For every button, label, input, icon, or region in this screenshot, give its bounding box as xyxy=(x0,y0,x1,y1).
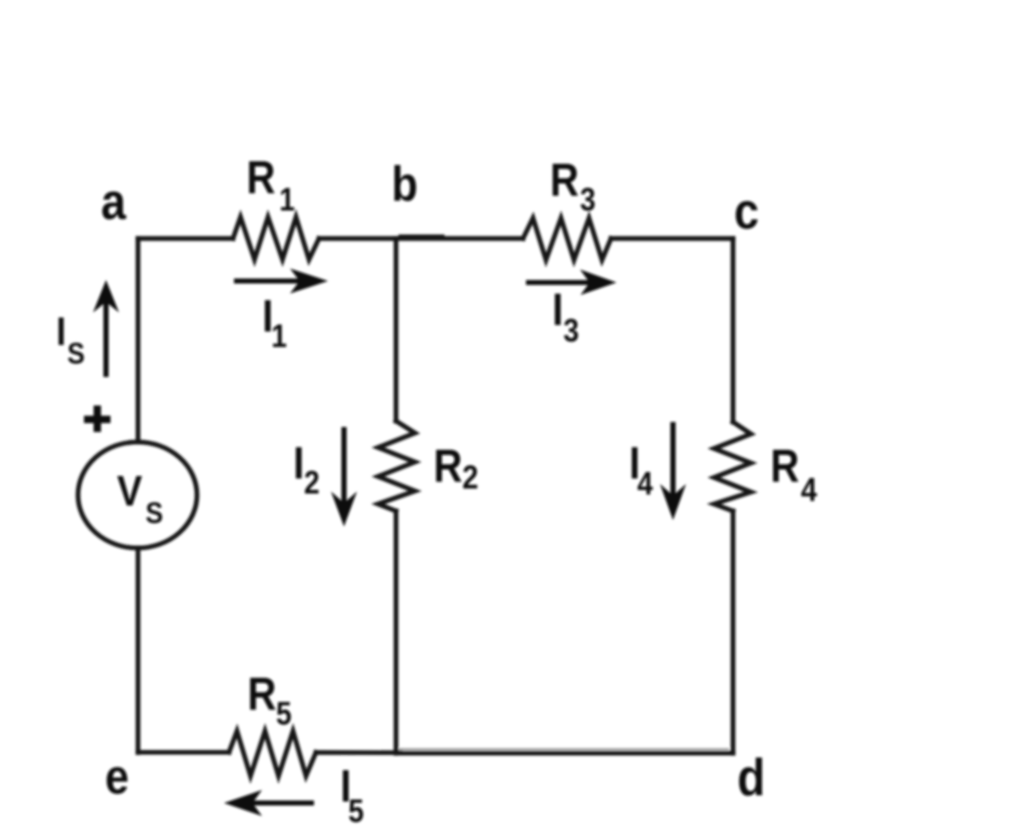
svg-text:R: R xyxy=(434,441,463,492)
svg-text:V: V xyxy=(117,466,142,515)
svg-text:3: 3 xyxy=(563,314,579,349)
svg-text:4: 4 xyxy=(637,467,653,502)
svg-text:I: I xyxy=(552,285,563,335)
current arrow I4 (down) xyxy=(670,422,675,504)
wire e to R5 xyxy=(138,750,229,755)
svg-text:1: 1 xyxy=(271,319,287,354)
current arrow I3 (right) xyxy=(526,280,600,285)
plus sign of source xyxy=(94,406,101,433)
svg-text:S: S xyxy=(146,495,164,529)
svg-text:I: I xyxy=(293,438,304,488)
svg-text:R: R xyxy=(770,441,799,492)
current arrow I5 (left) xyxy=(243,801,314,806)
resistor R5 xyxy=(229,731,316,776)
wire bottom right segment xyxy=(398,751,733,756)
svg-text:d: d xyxy=(737,749,765,806)
svg-text:S: S xyxy=(67,336,85,370)
wire node b to R3 xyxy=(396,236,523,241)
current arrow IS (up) xyxy=(103,291,108,377)
wire R1 to node b xyxy=(319,236,396,241)
resistor R1 xyxy=(233,217,319,260)
current arrow I1 (right) xyxy=(234,279,310,284)
svg-text:R: R xyxy=(248,669,277,720)
wire R4 down to node d xyxy=(731,511,736,753)
voltage source VS circle xyxy=(78,442,197,548)
svg-text:2: 2 xyxy=(304,466,320,501)
svg-text:c: c xyxy=(734,184,759,240)
resistor R4 xyxy=(714,422,751,511)
wire R3 to node c xyxy=(611,236,733,241)
svg-text:I: I xyxy=(56,309,66,354)
svg-text:a: a xyxy=(101,174,127,230)
svg-text:2: 2 xyxy=(462,459,478,496)
svg-text:5: 5 xyxy=(276,697,292,732)
resistor R3 xyxy=(523,218,611,260)
wire R2 down to bottom rail xyxy=(394,511,399,753)
wire overlap artifact at b xyxy=(400,235,443,238)
wire left rail upper (a to Vs) xyxy=(136,239,141,443)
wire left rail lower (Vs to e) xyxy=(136,548,141,753)
wire a to R1 xyxy=(138,236,233,241)
svg-text:3: 3 xyxy=(580,183,596,218)
svg-text:R: R xyxy=(247,152,276,203)
resistor R2 xyxy=(378,421,415,511)
wire node b down to R2 xyxy=(394,239,399,422)
svg-text:R: R xyxy=(550,155,579,206)
faint overlap artifact above bottom wire xyxy=(400,748,728,750)
svg-text:4: 4 xyxy=(801,471,818,508)
svg-text:1: 1 xyxy=(279,183,295,218)
svg-text:5: 5 xyxy=(348,794,364,829)
wire node c down to R4 xyxy=(731,239,736,423)
svg-text:e: e xyxy=(105,749,129,804)
current arrow I2 (down) xyxy=(341,427,346,512)
wire R5 to node d xyxy=(316,750,400,755)
svg-text:b: b xyxy=(392,156,418,211)
